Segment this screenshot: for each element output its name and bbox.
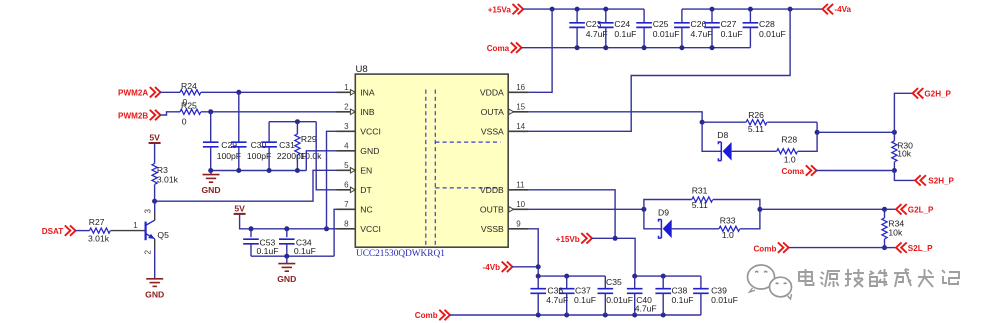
wire R33 to node bbox=[740, 209, 760, 229]
svg-text:VSSB: VSSB bbox=[481, 224, 504, 234]
wire to R30 / G2H_P bbox=[817, 131, 894, 133]
wire GND stem bbox=[210, 171, 212, 175]
resistor R26 bbox=[746, 120, 767, 125]
svg-text:8: 8 bbox=[344, 219, 349, 228]
watermark WeChat logo bbox=[748, 265, 792, 299]
junction INA / C30 bbox=[236, 90, 241, 95]
junction R26/R28 output bbox=[815, 130, 820, 135]
junction INB / C29 bbox=[208, 109, 213, 114]
svg-text:R26: R26 bbox=[748, 110, 764, 120]
junction -4Va rail bbox=[748, 7, 753, 12]
pin 10 OUTB stub bbox=[508, 208, 529, 210]
svg-text:1: 1 bbox=[133, 221, 138, 230]
junction C36 rail bbox=[536, 274, 541, 279]
wire D9 to R33 bbox=[672, 228, 719, 230]
resistor R33 bbox=[719, 226, 740, 231]
svg-text:10k: 10k bbox=[897, 149, 912, 159]
wire C36 top lead bbox=[537, 276, 539, 289]
wire Q5 collector stub bbox=[154, 211, 156, 220]
svg-text:6: 6 bbox=[344, 180, 349, 189]
wire Coma rail bbox=[521, 47, 750, 49]
wire C31 top bbox=[268, 122, 270, 143]
wire C35 top lead bbox=[604, 276, 606, 289]
junction C34 top bbox=[284, 226, 289, 231]
resistor R3 bbox=[152, 164, 157, 185]
junction OUTB network bbox=[641, 207, 646, 212]
capacitor C30 bbox=[231, 142, 247, 147]
junction -4Va rail bbox=[788, 7, 793, 12]
capacitor C24 bbox=[598, 23, 614, 28]
connector S2H_P bbox=[915, 175, 926, 185]
pin 6 DT stub bbox=[337, 189, 356, 191]
svg-text:VSSA: VSSA bbox=[481, 127, 504, 137]
resistor R30 bbox=[892, 141, 897, 162]
wire C39 top lead bbox=[700, 276, 702, 289]
wire to C36 rail bbox=[537, 267, 539, 276]
pin 3 VCCI stub bbox=[337, 130, 356, 132]
svg-text:14: 14 bbox=[516, 122, 525, 131]
svg-text:10: 10 bbox=[516, 200, 525, 209]
wire GND rail under C29-C31 bbox=[211, 170, 307, 172]
wire C34 top lead bbox=[286, 229, 288, 237]
wire to G2H_P bbox=[894, 93, 912, 132]
wire Q5 emitter to GND bbox=[154, 250, 156, 279]
svg-text:R28: R28 bbox=[781, 135, 797, 145]
wire -4Vb bbox=[512, 266, 538, 268]
svg-text:16: 16 bbox=[516, 83, 525, 92]
svg-text:VDDA: VDDA bbox=[480, 88, 504, 98]
svg-text:C24: C24 bbox=[614, 19, 630, 29]
svg-text:5: 5 bbox=[344, 161, 349, 170]
svg-text:4.7uF: 4.7uF bbox=[586, 29, 608, 39]
wire stub G2L_P bbox=[885, 208, 897, 210]
svg-text:C31: C31 bbox=[279, 140, 295, 150]
svg-text:INB: INB bbox=[360, 107, 375, 117]
connector Coma mid bbox=[806, 165, 817, 175]
wire C25 bottom lead bbox=[643, 27, 645, 47]
wire Q5 collector bbox=[154, 201, 156, 211]
wire R34 bottom lead bbox=[884, 239, 886, 248]
svg-text:+15Vb: +15Vb bbox=[556, 235, 580, 244]
power 5V (R3) bbox=[149, 142, 161, 144]
wire R28 to node bbox=[798, 122, 817, 151]
svg-text:0.01uF: 0.01uF bbox=[759, 29, 786, 39]
svg-text:UCC21530QDWKRQ1: UCC21530QDWKRQ1 bbox=[356, 249, 445, 259]
wire R34 top lead bbox=[884, 209, 886, 218]
wire OUTA bbox=[529, 112, 702, 122]
isolation barrier dashed line 1 bbox=[425, 90, 427, 246]
svg-text:2: 2 bbox=[344, 102, 349, 111]
connector PWM2A bbox=[150, 87, 161, 97]
svg-text:VCCI: VCCI bbox=[360, 127, 381, 137]
svg-text:5V: 5V bbox=[149, 133, 160, 143]
junction Comb rail bbox=[661, 313, 666, 318]
svg-text:S2L_P: S2L_P bbox=[908, 244, 933, 253]
wire to G2L_P bbox=[760, 208, 885, 210]
svg-text:R25: R25 bbox=[181, 100, 197, 110]
connector Comb bottom bbox=[439, 310, 450, 320]
wire R29 top lead bbox=[296, 122, 298, 134]
wire C30 bottom bbox=[238, 147, 240, 171]
svg-text:U8: U8 bbox=[356, 64, 368, 75]
svg-text:9: 9 bbox=[516, 219, 521, 228]
svg-text:GND: GND bbox=[145, 289, 164, 299]
svg-text:Q5: Q5 bbox=[157, 230, 169, 240]
junction Comb rail bbox=[603, 313, 608, 318]
watermark text 电源技能成长记 (stylised) bbox=[799, 269, 959, 287]
svg-text:-4Va: -4Va bbox=[834, 5, 851, 14]
wire node to pin5 EN bbox=[155, 170, 337, 201]
svg-text:5.11: 5.11 bbox=[692, 200, 708, 210]
transistor Q2 Q5 NPN bbox=[146, 220, 155, 240]
wire +15Vb cap rail bbox=[635, 275, 701, 277]
wire VDDB riser bbox=[529, 190, 615, 239]
connector -4Vb bbox=[502, 262, 513, 272]
connector -4Va bbox=[822, 4, 833, 14]
svg-text:0.1uF: 0.1uF bbox=[672, 295, 694, 305]
svg-text:C27: C27 bbox=[721, 19, 737, 29]
pin 4 GND stub bbox=[337, 150, 356, 152]
ground GND (Q5 emitter) bbox=[146, 279, 163, 287]
wire R3 to node bbox=[154, 185, 156, 202]
pin 16 VDDA stub bbox=[508, 91, 529, 93]
wire R24 to pin1 INA bbox=[201, 91, 337, 93]
svg-text:NC: NC bbox=[360, 205, 372, 215]
capacitor C39 bbox=[693, 289, 709, 294]
wire C27 top lead bbox=[711, 9, 713, 23]
connector Coma top bbox=[511, 43, 522, 53]
ground GND (VCCI caps) bbox=[278, 264, 295, 272]
wire R25 to pin2 INB bbox=[201, 111, 337, 113]
wire C24 bottom lead bbox=[605, 27, 607, 47]
svg-text:C38: C38 bbox=[672, 286, 688, 296]
svg-text:11: 11 bbox=[516, 180, 525, 189]
capacitor C28 bbox=[743, 23, 759, 28]
wire -4Vb cap rail bbox=[538, 275, 605, 277]
junction +15Va rail bbox=[603, 7, 608, 12]
wire to R31 bbox=[644, 200, 692, 210]
wire C30 top bbox=[238, 92, 240, 142]
svg-text:Coma: Coma bbox=[782, 167, 805, 176]
wire R27 to Q5 base bbox=[111, 230, 145, 232]
capacitor C40 bbox=[627, 289, 643, 294]
svg-text:S2H_P: S2H_P bbox=[928, 177, 954, 186]
svg-text:0.1uF: 0.1uF bbox=[574, 295, 596, 305]
junction R29/rail bbox=[295, 168, 300, 173]
wire -4Va rail bbox=[682, 8, 823, 10]
junction Coma rail bbox=[603, 45, 608, 50]
junction Coma rail bbox=[642, 45, 647, 50]
svg-text:5.11: 5.11 bbox=[748, 124, 764, 134]
wire C40 top lead bbox=[634, 276, 636, 289]
connector +15Va bbox=[513, 4, 524, 14]
pin 5 EN stub bbox=[337, 169, 356, 171]
connector G2H_P bbox=[913, 88, 924, 98]
junction C37 top bbox=[564, 274, 569, 279]
connector S2L_P bbox=[896, 242, 907, 252]
pin 7 NC stub bbox=[337, 208, 356, 210]
pin 2 INB stub bbox=[337, 111, 356, 113]
wire C23 top lead bbox=[576, 9, 578, 23]
isolation barrier dashed line 2 bbox=[434, 90, 436, 246]
svg-text:C35: C35 bbox=[606, 277, 622, 287]
svg-text:100pF: 100pF bbox=[247, 151, 271, 161]
svg-text:5V: 5V bbox=[234, 203, 245, 213]
junction +15Va rail bbox=[575, 7, 580, 12]
wire +15Va rail bbox=[523, 8, 644, 10]
wire C53 bottom lead bbox=[250, 244, 252, 256]
wire C24 top lead bbox=[605, 9, 607, 23]
svg-text:R29: R29 bbox=[301, 134, 317, 144]
resistor R29 bbox=[295, 134, 300, 155]
junction Comb rail bbox=[564, 313, 569, 318]
svg-text:0.1uF: 0.1uF bbox=[721, 29, 743, 39]
wire R29 bottom lead bbox=[296, 155, 298, 171]
svg-text:10.0k: 10.0k bbox=[300, 151, 322, 161]
junction Comb rail bbox=[536, 313, 541, 318]
junction R3/Q5 collector/EN bbox=[152, 199, 157, 204]
junction C38 top bbox=[661, 274, 666, 279]
svg-text:C37: C37 bbox=[575, 286, 591, 296]
wire C25 top lead bbox=[643, 9, 645, 23]
svg-text:G2L_P: G2L_P bbox=[908, 206, 934, 215]
wire to D9 bbox=[644, 209, 662, 229]
svg-text:OUTA: OUTA bbox=[481, 107, 505, 117]
resistor R24 bbox=[180, 90, 201, 95]
svg-text:10k: 10k bbox=[888, 228, 903, 238]
wire DSAT to R27 bbox=[75, 230, 89, 232]
svg-text:OUTB: OUTB bbox=[480, 205, 504, 215]
svg-text:R33: R33 bbox=[720, 215, 736, 225]
wire C36 bottom lead bbox=[537, 293, 539, 315]
wire C37 bottom lead bbox=[566, 293, 568, 315]
connector Comb mid bbox=[778, 242, 789, 252]
wire C29 top bbox=[210, 112, 212, 142]
svg-text:C28: C28 bbox=[759, 19, 775, 29]
junction Coma/R30/S2H_P bbox=[892, 168, 897, 173]
capacitor C23 bbox=[569, 23, 585, 28]
pin 1 INA stub bbox=[337, 91, 356, 93]
svg-text:2: 2 bbox=[144, 250, 153, 255]
wire C31 bottom bbox=[268, 147, 270, 171]
junction G2L_P/R34 bbox=[882, 207, 887, 212]
capacitor C26 bbox=[674, 23, 690, 28]
svg-text:0.1uF: 0.1uF bbox=[614, 29, 636, 39]
wire C26 bottom lead bbox=[681, 27, 683, 47]
capacitor C36 bbox=[530, 289, 546, 294]
capacitor C34 bbox=[279, 239, 295, 244]
junction +15Va rail bbox=[550, 7, 555, 12]
wire C35 bottom lead bbox=[604, 293, 606, 315]
svg-text:R31: R31 bbox=[692, 185, 708, 195]
junction VSSB/-4Vb bbox=[536, 264, 541, 269]
svg-text:D8: D8 bbox=[717, 130, 728, 140]
svg-text:1.0: 1.0 bbox=[722, 230, 734, 240]
svg-text:4.7uF: 4.7uF bbox=[546, 295, 568, 305]
capacitor C53 bbox=[243, 239, 259, 244]
resistor R25 bbox=[180, 109, 201, 114]
wire Coma to R30 bbox=[816, 170, 894, 172]
wire +15Vb to C40 bbox=[592, 238, 635, 276]
wire R31 to node bbox=[713, 200, 760, 210]
junction OUTA network bbox=[700, 120, 705, 125]
wire 5V to R3 bbox=[154, 143, 156, 164]
pin 14 VSSA stub bbox=[508, 130, 529, 132]
svg-text:VCCI: VCCI bbox=[360, 224, 381, 234]
wire to D8 bbox=[702, 122, 721, 151]
svg-text:15: 15 bbox=[516, 102, 525, 111]
resistor R27 bbox=[90, 228, 111, 233]
svg-text:3.01k: 3.01k bbox=[88, 234, 110, 244]
wire riser to pin3 VCCI bbox=[327, 131, 337, 229]
resistor R31 bbox=[692, 197, 713, 202]
svg-text:Comb: Comb bbox=[415, 311, 438, 320]
wire C53/C34 bottom rail bbox=[251, 255, 334, 257]
junction -4Va rail bbox=[710, 7, 715, 12]
junction Coma rail bbox=[575, 45, 580, 50]
junction C40 top bbox=[632, 274, 637, 279]
diode D8 (TVS) bbox=[718, 142, 721, 161]
capacitor C38 bbox=[655, 289, 671, 294]
svg-text:0: 0 bbox=[182, 117, 187, 127]
wire R30 top lead bbox=[893, 132, 895, 141]
wire C37 top lead bbox=[566, 276, 568, 289]
wire rail to pin7 NC bbox=[334, 209, 336, 256]
resistor R34 bbox=[882, 218, 887, 239]
junction R29 top bbox=[295, 119, 300, 124]
wire C29 bottom bbox=[210, 147, 212, 171]
svg-text:0.1uF: 0.1uF bbox=[257, 246, 279, 256]
pin 8 VCCI stub bbox=[337, 228, 356, 230]
wire to S2H_P bbox=[894, 171, 915, 181]
junction C30/rail bbox=[236, 168, 241, 173]
svg-text:+15Va: +15Va bbox=[488, 5, 512, 14]
pin 9 VSSB stub bbox=[508, 228, 529, 230]
ground GND (input caps) bbox=[203, 175, 220, 183]
svg-text:C39: C39 bbox=[711, 286, 727, 296]
wire PWM2B to R25 bbox=[160, 112, 180, 115]
capacitor C27 bbox=[704, 23, 720, 28]
svg-text:3: 3 bbox=[344, 122, 349, 131]
capacitor C29 bbox=[203, 142, 219, 147]
svg-text:3.01k: 3.01k bbox=[157, 174, 179, 184]
power 5V (VCCI caps) bbox=[234, 213, 246, 215]
svg-text:C26: C26 bbox=[691, 19, 707, 29]
resistor R28 bbox=[777, 149, 798, 154]
junction GND stem bbox=[284, 254, 289, 259]
wire C38 bottom lead bbox=[662, 293, 664, 315]
wire Comb bottom rail bbox=[450, 314, 701, 316]
junction C29/GND bbox=[208, 168, 213, 173]
wire VDDA to +15Va bbox=[529, 9, 552, 92]
dashed line VDDB region bbox=[435, 187, 500, 189]
op-amp U1 IC body U8 UCC21530 bbox=[355, 74, 508, 247]
svg-text:G2H_P: G2H_P bbox=[924, 90, 951, 99]
capacitor C31 bbox=[261, 142, 277, 147]
svg-text:R27: R27 bbox=[89, 217, 105, 227]
junction G2H_P/R30 bbox=[892, 130, 897, 135]
svg-text:Comb: Comb bbox=[753, 244, 776, 253]
pin 15 OUTA stub bbox=[508, 111, 529, 113]
wire VSSB riser bbox=[529, 229, 538, 267]
svg-text:C25: C25 bbox=[653, 19, 669, 29]
connector +15Vb bbox=[581, 233, 592, 243]
svg-text:4.7uF: 4.7uF bbox=[691, 29, 713, 39]
wire C40 bottom lead bbox=[634, 293, 636, 315]
wire R30 bottom lead bbox=[893, 162, 895, 171]
wire Comb to R34 bbox=[789, 247, 885, 249]
wire to S2L_P bbox=[885, 247, 897, 249]
connector PWM2B bbox=[150, 110, 161, 120]
junction C31/rail bbox=[267, 168, 272, 173]
wire C27 bottom lead bbox=[711, 27, 713, 47]
svg-text:-4Vb: -4Vb bbox=[483, 263, 501, 272]
junction C53 top bbox=[249, 226, 254, 231]
wire Q5 emitter stub bbox=[154, 239, 156, 250]
connector DSAT bbox=[65, 225, 76, 235]
svg-text:4.7uF: 4.7uF bbox=[635, 304, 657, 314]
dashed line VSSA region bbox=[435, 141, 500, 143]
wire C34 bottom lead bbox=[286, 244, 288, 256]
capacitor C25 bbox=[636, 23, 652, 28]
svg-text:EN: EN bbox=[360, 166, 372, 176]
svg-text:D9: D9 bbox=[658, 208, 669, 218]
junction pin3 riser bbox=[324, 226, 329, 231]
svg-text:7: 7 bbox=[344, 200, 349, 209]
wire rail C31 R29 top bbox=[269, 121, 316, 123]
wire C39 bottom lead bbox=[700, 293, 702, 315]
wire rail to pin4 GND bbox=[306, 151, 336, 171]
svg-text:GND: GND bbox=[360, 146, 379, 156]
junction VDDB/+15Vb bbox=[613, 236, 618, 241]
junction Comb rail bbox=[632, 313, 637, 318]
svg-text:GND: GND bbox=[201, 185, 220, 195]
wire D8 to R28 bbox=[732, 150, 777, 152]
junction Coma rail bbox=[710, 45, 715, 50]
svg-text:INA: INA bbox=[360, 88, 375, 98]
svg-text:PWM2B: PWM2B bbox=[118, 111, 148, 120]
wire to R26 bbox=[702, 121, 746, 123]
wire R26 to node bbox=[767, 121, 817, 123]
pin 11 VDDB stub bbox=[508, 189, 529, 191]
svg-text:DT: DT bbox=[360, 185, 372, 195]
svg-text:R24: R24 bbox=[181, 81, 197, 91]
diode D9 (TVS) bbox=[659, 220, 662, 239]
svg-text:100pF: 100pF bbox=[217, 151, 241, 161]
capacitor C37 bbox=[559, 289, 575, 294]
junction Comb/R34/S2L_P bbox=[882, 245, 887, 250]
svg-text:0.1uF: 0.1uF bbox=[294, 246, 316, 256]
wire C23 bottom lead bbox=[576, 27, 578, 47]
svg-text:4: 4 bbox=[344, 141, 349, 150]
svg-text:VDDB: VDDB bbox=[480, 185, 504, 195]
wire 5V to pin8 VCCI rail bbox=[240, 214, 337, 229]
connector G2L_P bbox=[896, 204, 907, 214]
svg-text:0.01uF: 0.01uF bbox=[711, 295, 738, 305]
wire C28 bottom lead bbox=[749, 27, 751, 47]
junction network out bbox=[757, 207, 762, 212]
wire rail to pin6 DT bbox=[316, 122, 336, 190]
wire PWM2A to R24 bbox=[160, 91, 180, 93]
svg-text:1.0: 1.0 bbox=[784, 154, 796, 164]
svg-text:0.01uF: 0.01uF bbox=[606, 295, 633, 305]
svg-text:DSAT: DSAT bbox=[42, 227, 63, 236]
capacitor C35 bbox=[598, 289, 614, 294]
wire VSSA to -4Va bbox=[529, 9, 790, 131]
junction Coma rail bbox=[679, 45, 684, 50]
wire C26 top lead bbox=[681, 9, 683, 23]
svg-text:GND: GND bbox=[277, 274, 296, 284]
